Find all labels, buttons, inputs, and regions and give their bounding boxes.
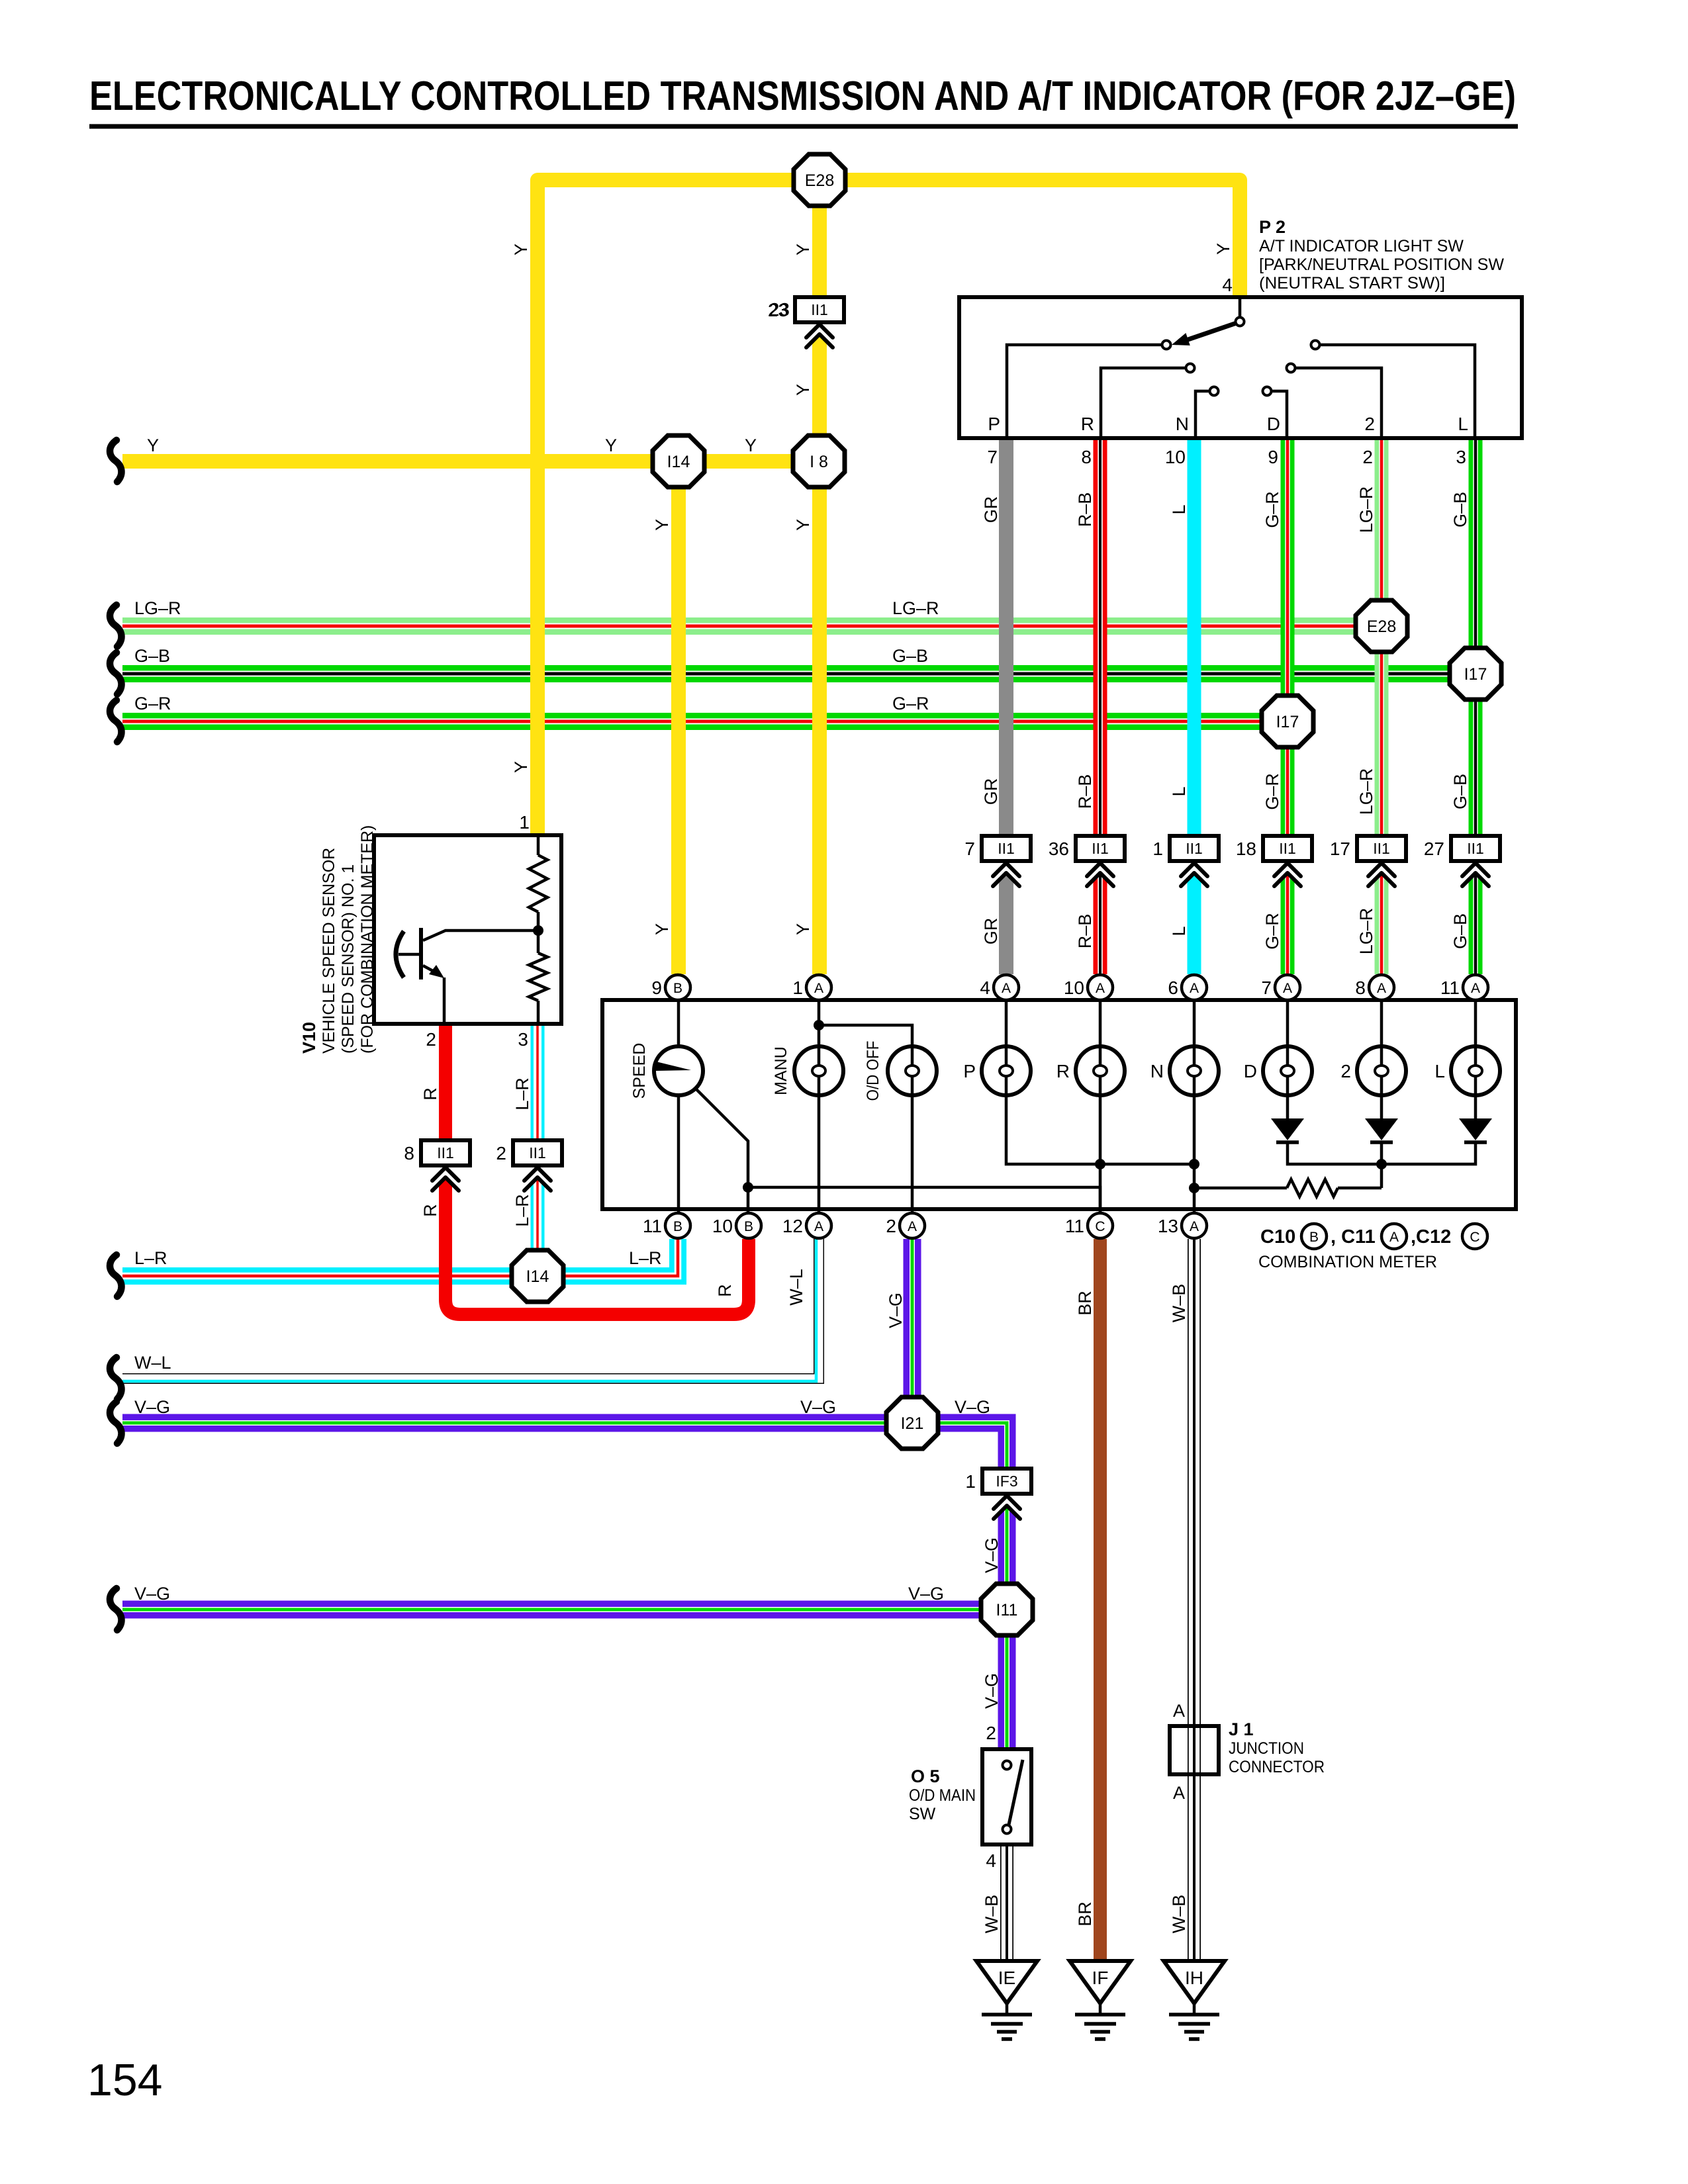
svg-text:3: 3 [518, 1029, 528, 1050]
svg-text:IF3: IF3 [996, 1473, 1017, 1490]
svg-text:B: B [744, 1219, 753, 1234]
svg-text:2: 2 [496, 1143, 506, 1163]
svg-text:LG–R: LG–R [1356, 768, 1376, 815]
svg-text:R: R [420, 1087, 440, 1101]
svg-text:9: 9 [651, 978, 662, 998]
svg-text:V–G: V–G [800, 1397, 836, 1417]
svg-text:2: 2 [1364, 414, 1375, 434]
svg-text:2: 2 [986, 1723, 996, 1743]
svg-text:W–L: W–L [786, 1269, 806, 1306]
svg-text:A: A [908, 1219, 917, 1234]
svg-text:L: L [1169, 504, 1189, 514]
svg-text:13: 13 [1158, 1216, 1178, 1236]
svg-text:A: A [1190, 1219, 1199, 1234]
svg-text:W–B: W–B [1169, 1895, 1189, 1934]
svg-text:A: A [1096, 981, 1105, 996]
svg-text:11: 11 [643, 1216, 662, 1236]
svg-text:N: N [1176, 414, 1189, 434]
svg-text:L: L [1458, 414, 1468, 434]
svg-text:A: A [1173, 1783, 1185, 1803]
svg-text:4: 4 [1222, 275, 1233, 295]
svg-text:C: C [1095, 1219, 1105, 1234]
svg-text:9: 9 [1268, 447, 1278, 467]
svg-text:II1: II1 [1186, 840, 1203, 857]
svg-text:G–B: G–B [1450, 492, 1470, 527]
svg-text:10: 10 [712, 1216, 733, 1236]
svg-text:B: B [1309, 1230, 1319, 1245]
svg-text:12: 12 [782, 1216, 803, 1236]
svg-text:D: D [1244, 1061, 1257, 1081]
svg-text:R–B: R–B [1075, 492, 1095, 527]
svg-text:G–R: G–R [1262, 913, 1282, 950]
svg-text:[PARK/NEUTRAL POSITION SW: [PARK/NEUTRAL POSITION SW [1259, 255, 1504, 274]
svg-text:ELECTRONICALLY CONTROLLED TRAN: ELECTRONICALLY CONTROLLED TRANSMISSION A… [89, 73, 1516, 119]
svg-text:II1: II1 [811, 301, 828, 318]
svg-text:A: A [1377, 981, 1386, 996]
svg-text:R: R [1081, 414, 1094, 434]
svg-text:L–R: L–R [134, 1248, 167, 1268]
svg-text:I17: I17 [1276, 713, 1299, 731]
svg-text:V–G: V–G [134, 1584, 170, 1604]
svg-text:Y: Y [652, 923, 672, 935]
svg-text:BR: BR [1075, 1901, 1095, 1927]
svg-text:II1: II1 [529, 1144, 546, 1161]
svg-text:L–R: L–R [629, 1248, 662, 1268]
svg-text:R: R [715, 1284, 735, 1297]
svg-text:10: 10 [1064, 978, 1084, 998]
svg-text:, C11: , C11 [1331, 1226, 1376, 1248]
svg-text:SW: SW [909, 1805, 936, 1823]
svg-text:VEHICLE SPEED SENSOR: VEHICLE SPEED SENSOR [320, 848, 338, 1054]
svg-text:4: 4 [980, 978, 990, 998]
svg-text:Y: Y [511, 244, 531, 255]
svg-text:W–B: W–B [1169, 1284, 1189, 1323]
svg-text:V–G: V–G [886, 1293, 906, 1328]
svg-text:G–R: G–R [134, 694, 171, 713]
svg-text:2: 2 [886, 1216, 896, 1236]
svg-text:E28: E28 [1367, 617, 1396, 636]
svg-text:6: 6 [1168, 978, 1178, 998]
svg-text:A: A [1173, 1701, 1185, 1721]
svg-text:II1: II1 [437, 1144, 454, 1161]
svg-text:CONNECTOR: CONNECTOR [1229, 1758, 1325, 1776]
svg-text:IF: IF [1092, 1968, 1109, 1988]
svg-text:JUNCTION: JUNCTION [1229, 1739, 1304, 1758]
svg-text:P 2: P 2 [1259, 217, 1286, 237]
svg-text:E28: E28 [805, 171, 834, 190]
svg-text:LG–R: LG–R [134, 598, 181, 618]
svg-text:27: 27 [1424, 839, 1444, 859]
svg-text:11: 11 [1440, 978, 1460, 998]
svg-text:Y: Y [793, 244, 813, 255]
svg-text:(SPEED SENSOR) NO. 1: (SPEED SENSOR) NO. 1 [339, 864, 357, 1054]
svg-text:(NEUTRAL START SW)]: (NEUTRAL START SW)] [1259, 274, 1445, 293]
svg-text:P: P [988, 414, 1000, 434]
svg-text:2: 2 [1362, 447, 1373, 467]
svg-text:1: 1 [1152, 839, 1163, 859]
svg-text:18: 18 [1236, 839, 1256, 859]
svg-text:A: A [814, 1219, 823, 1234]
svg-text:SPEED: SPEED [630, 1043, 649, 1099]
svg-text:II1: II1 [1279, 840, 1296, 857]
svg-text:R–B: R–B [1075, 914, 1095, 949]
svg-text:G–R: G–R [1262, 491, 1282, 528]
svg-text:R: R [1056, 1061, 1070, 1081]
svg-text:(FOR COMBINATION METER): (FOR COMBINATION METER) [358, 825, 377, 1054]
svg-text:Y: Y [745, 435, 757, 455]
svg-text:C: C [1470, 1230, 1479, 1245]
svg-text:G–R: G–R [892, 694, 929, 713]
svg-text:BR: BR [1075, 1291, 1095, 1316]
svg-text:II1: II1 [1092, 840, 1109, 857]
svg-text:36: 36 [1049, 839, 1069, 859]
svg-text:I21: I21 [901, 1414, 924, 1433]
svg-text:L–R: L–R [512, 1194, 532, 1227]
svg-text:V–G: V–G [134, 1397, 170, 1417]
svg-text:17: 17 [1330, 839, 1350, 859]
svg-text:B: B [673, 1219, 682, 1234]
svg-text:V–G: V–G [908, 1584, 944, 1604]
svg-text:G–R: G–R [1262, 773, 1282, 810]
svg-text:154: 154 [87, 2055, 162, 2105]
svg-text:GR: GR [981, 496, 1001, 523]
svg-text:R–B: R–B [1075, 774, 1095, 809]
svg-text:O/D OFF: O/D OFF [864, 1041, 882, 1101]
svg-text:W–L: W–L [134, 1353, 171, 1373]
svg-text:GR: GR [981, 778, 1001, 805]
svg-text:IE: IE [998, 1968, 1015, 1988]
svg-text:I14: I14 [667, 453, 690, 471]
svg-text:L: L [1169, 786, 1189, 796]
svg-text:A: A [814, 981, 823, 996]
svg-text:MANU: MANU [772, 1046, 790, 1095]
svg-text:J 1: J 1 [1229, 1719, 1254, 1739]
svg-text:G–B: G–B [1450, 774, 1470, 809]
svg-text:4: 4 [986, 1850, 996, 1871]
svg-text:1: 1 [965, 1471, 976, 1492]
svg-text:Y: Y [147, 435, 159, 455]
svg-text:V–G: V–G [982, 1537, 1002, 1573]
svg-text:IH: IH [1185, 1968, 1203, 1988]
svg-text:8: 8 [1081, 447, 1092, 467]
svg-text:P: P [963, 1061, 976, 1081]
svg-text:A: A [1283, 981, 1292, 996]
svg-text:I11: I11 [996, 1601, 1018, 1619]
svg-text:COMBINATION METER: COMBINATION METER [1258, 1253, 1437, 1271]
svg-text:A: A [1471, 981, 1480, 996]
svg-text:Y: Y [1213, 243, 1233, 255]
svg-text:2: 2 [426, 1029, 436, 1050]
svg-text:B: B [673, 981, 682, 996]
svg-text:Y: Y [793, 923, 813, 935]
svg-text:3: 3 [1456, 447, 1466, 467]
svg-text:Y: Y [793, 384, 813, 396]
svg-text:GR: GR [981, 918, 1001, 945]
svg-text:1: 1 [519, 812, 530, 833]
svg-text:Y: Y [793, 519, 813, 531]
svg-text:7: 7 [987, 447, 998, 467]
svg-text:II1: II1 [1467, 840, 1484, 857]
svg-text:8: 8 [1355, 978, 1366, 998]
svg-text:2: 2 [1340, 1061, 1351, 1081]
svg-text:G–B: G–B [134, 646, 170, 666]
svg-text:A: A [1190, 981, 1199, 996]
svg-text:7: 7 [1261, 978, 1272, 998]
svg-text:Y: Y [652, 519, 672, 531]
svg-text:II1: II1 [998, 840, 1015, 857]
svg-text:D: D [1267, 414, 1280, 434]
svg-text:L: L [1434, 1061, 1445, 1081]
svg-text:I 8: I 8 [810, 453, 828, 471]
svg-text:23: 23 [769, 299, 790, 320]
svg-text:G–B: G–B [1450, 913, 1470, 949]
svg-text:A/T INDICATOR LIGHT SW: A/T INDICATOR LIGHT SW [1259, 237, 1464, 255]
svg-text:Y: Y [605, 435, 617, 455]
svg-text:7: 7 [964, 839, 975, 859]
svg-text:L: L [1169, 926, 1189, 936]
svg-text:L–R: L–R [512, 1077, 532, 1111]
svg-text:V–G: V–G [982, 1673, 1002, 1709]
svg-text:C10: C10 [1260, 1226, 1295, 1248]
svg-text:11: 11 [1065, 1216, 1084, 1236]
svg-text:LG–R: LG–R [892, 598, 939, 618]
svg-text:V10: V10 [299, 1022, 319, 1054]
svg-text:O/D MAIN: O/D MAIN [909, 1786, 976, 1805]
svg-text:R: R [420, 1204, 440, 1217]
svg-text:O 5: O 5 [911, 1766, 940, 1786]
svg-text:I17: I17 [1464, 665, 1487, 684]
svg-text:II1: II1 [1373, 840, 1390, 857]
svg-text:,C12: ,C12 [1411, 1226, 1451, 1248]
svg-text:N: N [1150, 1061, 1164, 1081]
svg-text:I14: I14 [526, 1267, 549, 1286]
svg-text:G–B: G–B [892, 646, 928, 666]
svg-text:V–G: V–G [955, 1397, 990, 1417]
svg-text:10: 10 [1165, 447, 1186, 467]
svg-text:LG–R: LG–R [1356, 908, 1376, 955]
svg-text:A: A [1002, 981, 1011, 996]
svg-text:8: 8 [404, 1143, 414, 1163]
svg-text:LG–R: LG–R [1356, 486, 1376, 533]
svg-text:A: A [1389, 1230, 1399, 1245]
svg-text:Y: Y [511, 761, 531, 773]
svg-text:W–B: W–B [982, 1895, 1002, 1934]
svg-text:1: 1 [792, 978, 803, 998]
